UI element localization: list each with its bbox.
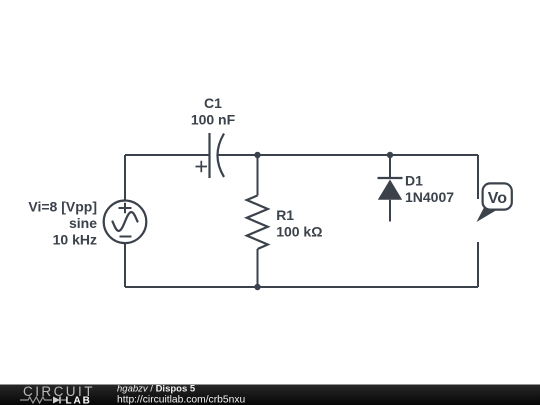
svg-text:C1: C1 xyxy=(204,95,222,111)
diode D1 triangle xyxy=(378,180,402,200)
flag Vo tail xyxy=(477,207,498,223)
junction node bottom xyxy=(254,284,260,290)
diode D1 cathode bar xyxy=(378,177,403,179)
svg-text:R1: R1 xyxy=(276,207,294,223)
diode D1 cathode lead xyxy=(389,155,391,178)
logo squiggle wire xyxy=(20,397,52,403)
flag Vo bubble xyxy=(483,183,512,209)
capacitor C1 plus sign xyxy=(196,161,208,173)
wire left vertical upper xyxy=(124,155,126,200)
svg-text:sine: sine xyxy=(69,215,97,231)
svg-text:Vo: Vo xyxy=(488,190,507,207)
svg-text:100 kΩ: 100 kΩ xyxy=(276,224,322,240)
wire top right xyxy=(218,154,478,156)
footer bar xyxy=(0,385,540,405)
svg-text:http://circuitlab.com/crb5nxu: http://circuitlab.com/crb5nxu xyxy=(117,395,245,405)
voltage source minus sign xyxy=(120,236,132,238)
svg-text:hgabzv / Dispos 5: hgabzv / Dispos 5 xyxy=(117,384,196,395)
svg-text:D1: D1 xyxy=(405,173,423,189)
svg-text:LAB: LAB xyxy=(66,396,92,405)
wire right vertical lower xyxy=(477,242,479,287)
junction node top center xyxy=(254,152,260,158)
wire bottom xyxy=(125,286,478,288)
junction node top right xyxy=(387,152,393,158)
logo diode symbol xyxy=(53,397,60,404)
resistor R1 leads xyxy=(257,155,259,287)
capacitor C1 right curved plate xyxy=(218,134,225,178)
wire top left xyxy=(125,154,209,156)
capacitor C1 left plate xyxy=(208,133,210,178)
voltage source plus sign xyxy=(119,203,132,213)
voltage source V1 circle xyxy=(104,201,147,244)
diode D1 anode lead xyxy=(389,200,391,222)
svg-text:Vi=8 [Vpp]: Vi=8 [Vpp] xyxy=(28,199,97,215)
svg-text:100 nF: 100 nF xyxy=(191,112,236,128)
svg-text:10 kHz: 10 kHz xyxy=(53,232,97,248)
resistor R1 zigzag xyxy=(247,196,268,250)
svg-text:1N4007: 1N4007 xyxy=(405,189,454,205)
wire right vertical upper xyxy=(477,155,479,199)
voltage source sine wave xyxy=(113,212,138,231)
wire left vertical lower xyxy=(124,244,126,288)
